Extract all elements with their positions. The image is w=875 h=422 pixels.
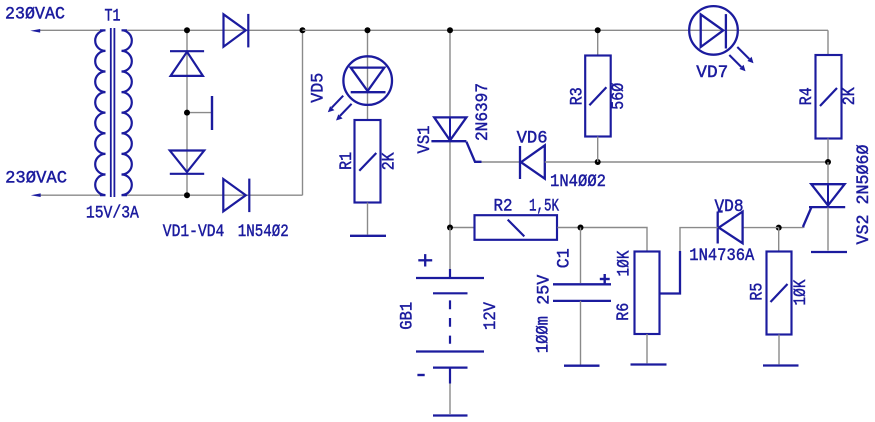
junction dot VD6/R3 <box>595 159 601 165</box>
svg-text:23ØVAC: 23ØVAC <box>5 169 67 189</box>
junction dot VD8/R5/VS2 gate <box>776 225 782 231</box>
LED VD5 <box>332 56 392 116</box>
battery plus sign <box>418 254 432 266</box>
LED VD7 <box>689 6 749 67</box>
resistor R5 slash <box>771 284 788 302</box>
svg-text:R1: R1 <box>337 152 357 170</box>
wire bridge center tap <box>187 112 211 114</box>
zener diode VD8 <box>718 212 743 244</box>
wire transformer secondary top to bridge <box>127 29 303 31</box>
battery minus sign <box>417 374 424 376</box>
junction dot C1 branch <box>578 225 584 231</box>
junction dot VS1/R2/battery <box>447 225 453 231</box>
ground bar below R6 <box>631 363 667 365</box>
LED VD5 arrowheads <box>328 106 335 112</box>
wire VD8 to junction <box>743 227 779 229</box>
wire VS2 gate to junction <box>779 227 804 229</box>
wire R4 bottom lead <box>827 139 829 163</box>
wire R2 right lead to R6 top corner <box>558 228 648 252</box>
svg-text:1N4ØØ2: 1N4ØØ2 <box>550 172 606 192</box>
junction dot VS1 branch top <box>447 27 453 33</box>
svg-text:VS1: VS1 <box>415 126 435 154</box>
resistor R4 <box>816 55 842 139</box>
svg-text:1ØØm: 1ØØm <box>534 316 554 353</box>
capacitor C1 plus sign <box>600 274 610 284</box>
wire R1 to ground <box>367 203 369 235</box>
wire R2 left lead <box>450 227 475 229</box>
svg-text:1N4736A: 1N4736A <box>689 246 754 266</box>
svg-text:VD8: VD8 <box>715 197 744 217</box>
diode VD4 (bottom wire, pointing right) <box>223 179 249 213</box>
resistor R3 <box>585 56 611 137</box>
wire C1 top lead <box>580 228 582 284</box>
wire VS1 branch vertical <box>449 30 451 227</box>
resistor R4 slash <box>820 88 837 106</box>
potentiometer R6 <box>635 252 660 335</box>
wire bottom-left from arrow to transformer primary <box>38 194 100 196</box>
junction dot bridge left mid <box>184 110 190 116</box>
svg-text:VD1-VD4: VD1-VD4 <box>163 222 225 242</box>
wire bridge right riser <box>302 30 304 195</box>
wire top-left from arrow to transformer primary <box>38 29 100 31</box>
wire top rail bridge to R4 corner <box>303 29 829 31</box>
svg-text:23ØVAC: 23ØVAC <box>5 4 65 24</box>
resistor R3 slash <box>589 87 606 105</box>
wire R3 top lead <box>597 30 599 55</box>
capacitor C1 <box>553 284 611 301</box>
svg-text:25V: 25V <box>534 274 554 304</box>
wire R4 top lead <box>827 30 829 55</box>
junction dot R4/VS2 <box>825 159 831 165</box>
ground bar below C1 <box>564 365 600 367</box>
bridge tap terminal bar <box>211 96 213 130</box>
diode VD2 (left branch top, pointing up) <box>170 51 204 76</box>
svg-text:2K: 2K <box>840 87 860 105</box>
svg-text:1,5K: 1,5K <box>529 197 559 217</box>
svg-text:2N6397: 2N6397 <box>473 83 493 141</box>
svg-text:R6: R6 <box>614 303 634 321</box>
wire VS2 anode lead <box>827 162 829 184</box>
junction dot bottom rail at bridge <box>184 192 190 198</box>
svg-text:15V/3A: 15V/3A <box>86 203 139 223</box>
battery positive stub <box>449 269 451 277</box>
battery GB1 <box>416 278 484 384</box>
resistor R2 slash <box>508 220 525 237</box>
node 230VAC bottom arrow <box>31 193 41 197</box>
svg-text:12V: 12V <box>481 302 501 330</box>
svg-text:56Ø: 56Ø <box>609 83 629 110</box>
wire VS1 gate to VD6 <box>482 161 520 163</box>
node 230VAC top arrow <box>30 29 40 33</box>
resistor R5 <box>767 252 792 335</box>
potentiometer R6 wiper arm <box>660 251 681 294</box>
diode VD3 (left branch bottom, pointing down) <box>170 151 204 174</box>
diode VD1 (top wire, pointing right) <box>224 14 249 48</box>
thyristor VS1 <box>431 117 481 161</box>
svg-text:1ØK: 1ØK <box>791 279 811 305</box>
svg-text:VD6: VD6 <box>517 129 548 149</box>
resistor R2 <box>475 215 558 240</box>
svg-text:2K: 2K <box>380 152 400 170</box>
wire VD6 to R3 node and on to VS2 anode node <box>545 161 828 163</box>
svg-text:1N54Ø2: 1N54Ø2 <box>238 222 289 242</box>
ground bar below battery <box>433 414 468 416</box>
diode VD6 <box>520 145 545 179</box>
svg-text:VD5: VD5 <box>308 73 328 103</box>
wire bridge left branch <box>186 30 188 195</box>
svg-text:R2: R2 <box>494 197 513 217</box>
wire VS2 cathode to ground <box>827 208 829 251</box>
svg-text:1ØK: 1ØK <box>615 250 635 276</box>
transformer T1 <box>95 28 132 197</box>
svg-text:C1: C1 <box>554 248 574 268</box>
resistor R1 <box>355 120 381 203</box>
wire R5 top lead <box>778 228 780 252</box>
thyristor VS2 <box>803 184 845 227</box>
svg-text:VS2 2N5Ø6Ø: VS2 2N5Ø6Ø <box>854 145 874 245</box>
LED VD7 arrowheads <box>747 57 753 64</box>
junction dot bridge riser top <box>300 27 306 33</box>
junction dot R3 top <box>595 27 601 33</box>
svg-text:R4: R4 <box>797 87 817 105</box>
junction dot top rail at bridge <box>184 27 190 33</box>
wire transformer secondary bottom to bridge <box>127 194 303 196</box>
svg-text:VD7: VD7 <box>696 63 728 83</box>
wire VD8 cathode left and down to R6 wiper <box>680 228 718 251</box>
wire R6 bottom lead <box>646 334 648 363</box>
wire battery bottom lead <box>449 384 451 415</box>
svg-text:GB1: GB1 <box>397 302 417 330</box>
resistor R1 slash <box>359 153 376 171</box>
svg-text:T1: T1 <box>105 6 121 26</box>
ground bar below R1 <box>350 235 386 237</box>
ground bar below R5 <box>763 364 799 366</box>
wire C1 bottom lead <box>580 301 582 365</box>
svg-text:R5: R5 <box>747 283 767 301</box>
wire R5 bottom lead <box>778 335 780 365</box>
wire battery top lead <box>449 228 451 270</box>
wire R3 bottom lead <box>597 137 599 163</box>
svg-text:R3: R3 <box>567 87 587 105</box>
junction dot VD5 branch <box>365 27 371 33</box>
wire VD5/R1 branch <box>367 30 369 120</box>
ground bar below VS2 <box>811 251 847 253</box>
